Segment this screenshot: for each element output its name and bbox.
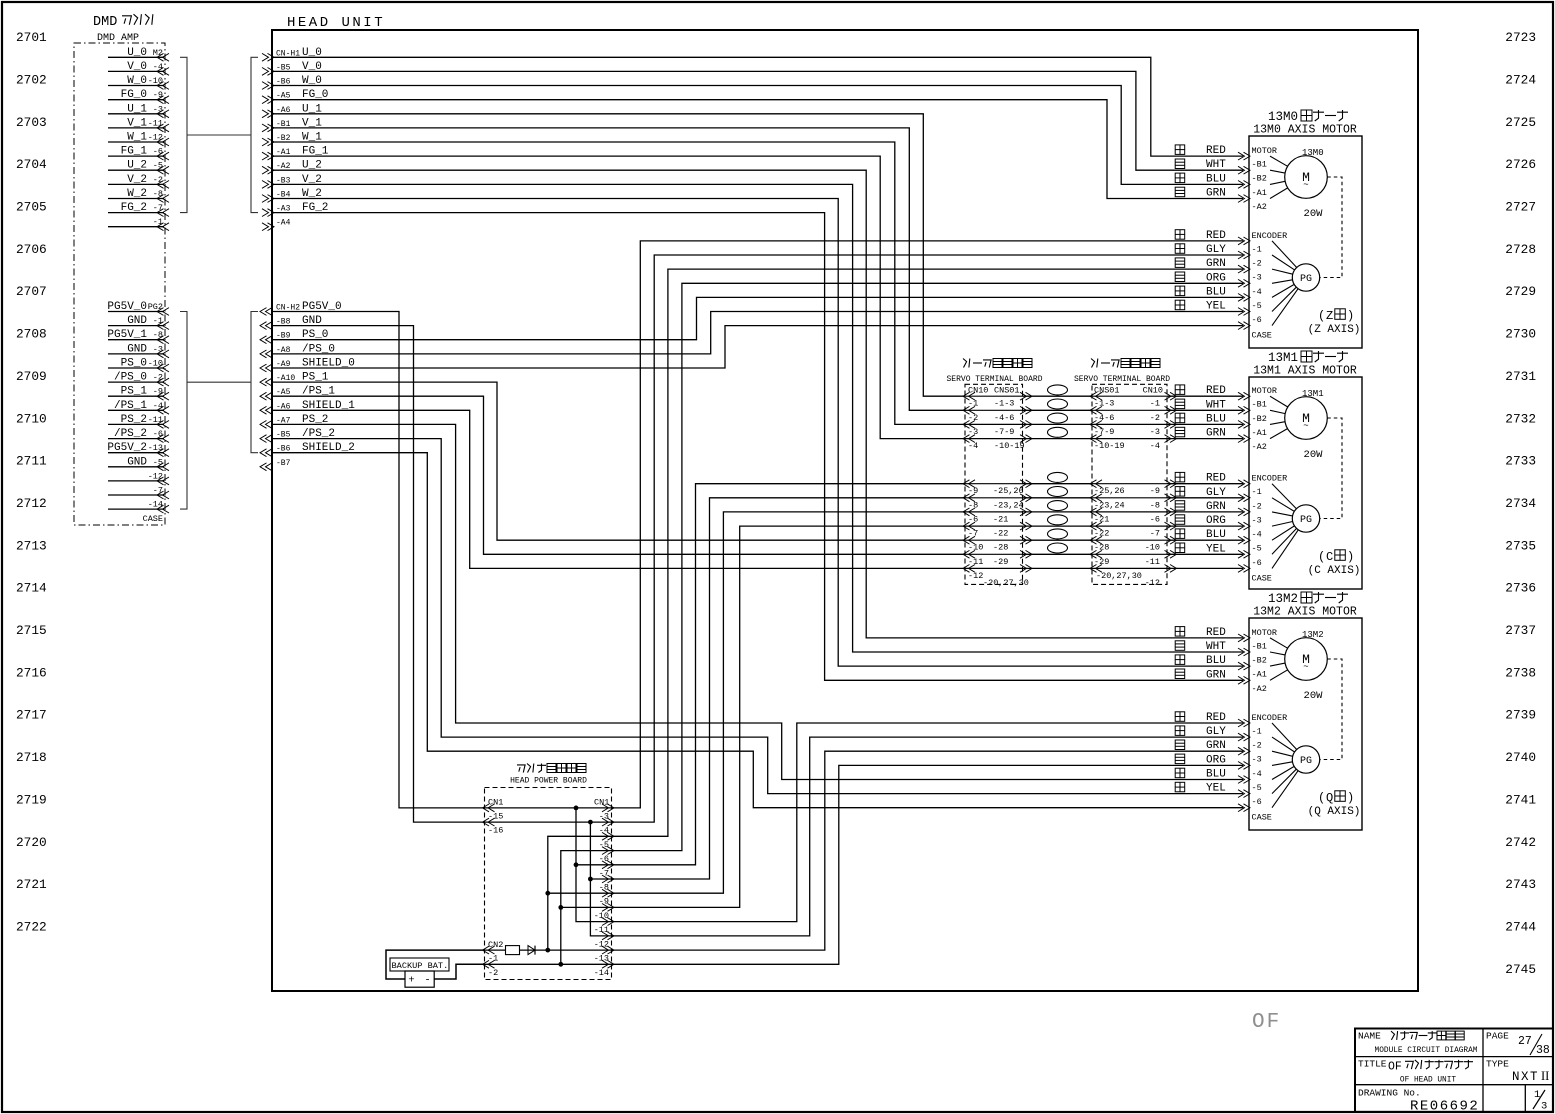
- svg-text:V_0: V_0: [127, 61, 147, 73]
- 13M0 encoder row 7 color label and pin arrow: [1244, 322, 1251, 330]
- svg-text:-1: -1: [1252, 487, 1262, 497]
- svg-text:-4: -4: [599, 826, 609, 836]
- svg-text:20W: 20W: [1304, 690, 1324, 702]
- svg-text:PAGE: PAGE: [1486, 1031, 1509, 1042]
- 13M1 motor pin fan lines: [1270, 396, 1288, 407]
- servo terminal board 2 CN10 pin -8 encoder row: [1092, 497, 1167, 499]
- svg-text:NAME: NAME: [1358, 1031, 1381, 1042]
- wire servo terminal board link motor row 4: [1023, 438, 1093, 440]
- DMD AMP pin -2 /PS_0 stub and connector: [108, 381, 164, 383]
- DMD AMP pin -3 U_1 stub and connector: [108, 113, 164, 115]
- 13M2 encoder row 6 color label and pin arrow: [1175, 782, 1185, 792]
- svg-text:2720: 2720: [16, 835, 47, 850]
- svg-text:YEL: YEL: [1206, 301, 1226, 313]
- DMD AMP pin -12 stub and connector: [108, 480, 164, 482]
- wire HEAD POWER BOARD CN1-12 to 13M2 encoder: [612, 737, 1243, 936]
- wire servo terminal board to 13M1 encoder row 2: [1167, 497, 1243, 499]
- servo terminal board 2 CNS01 pin -10-19 / CN10 pin -4 row: [1092, 438, 1167, 440]
- svg-text:2743: 2743: [1505, 877, 1536, 892]
- svg-text:-B2: -B2: [1252, 656, 1267, 666]
- svg-text:-3: -3: [1150, 427, 1160, 437]
- svg-text:U_2: U_2: [127, 160, 147, 172]
- svg-text:ENCODER: ENCODER: [1252, 474, 1288, 484]
- svg-text:): ): [1347, 791, 1354, 805]
- svg-text:-12: -12: [148, 471, 163, 481]
- DMD AMP pin -6 /PS_2 stub and connector: [108, 438, 164, 440]
- 13M0 motor pin fan lines: [1270, 156, 1288, 166]
- wire servo terminal board link motor row 3: [1023, 423, 1093, 425]
- wire W_2 CN-H1 to 13M2 motor: [272, 199, 1243, 667]
- svg-text:-10: -10: [148, 359, 163, 369]
- connector CN-H1 pin CN-H1 U_0: [268, 53, 275, 61]
- svg-text:-6: -6: [1252, 797, 1262, 807]
- twisted-pair cable symbol between servo terminal boards: [1048, 427, 1068, 437]
- wire HEAD POWER BOARD CN1-10 to servo terminal board: [612, 526, 965, 907]
- svg-text:-21: -21: [993, 514, 1008, 524]
- svg-text:2711: 2711: [16, 454, 47, 469]
- connector CN-H2 pin -A7 PS_2: [260, 421, 267, 429]
- svg-text:-B2: -B2: [1252, 414, 1267, 424]
- wire servo terminal board link encoder row 2: [1023, 497, 1093, 499]
- svg-text:TITLE: TITLE: [1358, 1059, 1387, 1070]
- svg-text:RE06692: RE06692: [1410, 1099, 1479, 1114]
- servo terminal board 2 CN10 pin -11 encoder row: [1092, 553, 1167, 555]
- svg-text:20W: 20W: [1304, 449, 1324, 461]
- wire HEAD POWER BOARD CN1-11 to 13M2 encoder: [612, 723, 1243, 922]
- diode on backup battery line: [528, 946, 535, 955]
- 13M0 encoder circle PG: [1292, 264, 1319, 291]
- svg-text:CASE: CASE: [143, 514, 163, 524]
- svg-text:GRN: GRN: [1206, 669, 1226, 681]
- svg-text:RED: RED: [1206, 385, 1226, 397]
- connector CN-H2 pin -B9 PS_0: [260, 336, 267, 344]
- 13M2 encoder row 4 color label and pin arrow: [1175, 754, 1185, 764]
- wire V_1 CN-H1 to servo terminal board CN10: [272, 128, 965, 410]
- wire HEAD POWER BOARD CN1-5 to 13M0 encoder: [612, 269, 1243, 836]
- svg-text:SERVO TERMINAL BOARD: SERVO TERMINAL BOARD: [1074, 375, 1170, 384]
- wire HEAD POWER BOARD CN1-14 to 13M2 encoder: [612, 765, 1243, 964]
- wire servo terminal board link encoder row 1: [1023, 483, 1093, 485]
- svg-text:2735: 2735: [1505, 538, 1536, 553]
- HPB internal through wire CN1-16 to CN1-4: [485, 821, 613, 823]
- HPB internal wire to CN1-9: [548, 892, 612, 894]
- DMD AMP pin -12 W_1 stub and connector: [108, 141, 164, 143]
- svg-text:-28: -28: [993, 543, 1008, 553]
- svg-text:-5: -5: [1252, 301, 1262, 311]
- svg-text:2715: 2715: [16, 623, 47, 638]
- wire servo terminal board to 13M1 encoder row 7: [1167, 567, 1243, 569]
- svg-text:-3: -3: [1252, 755, 1262, 765]
- cable bracket upper left (DMD side): [180, 57, 187, 212]
- svg-text:ORG: ORG: [1206, 754, 1226, 766]
- svg-text:GRN: GRN: [1206, 740, 1226, 752]
- svg-text:-2: -2: [1252, 741, 1262, 751]
- svg-text:RED: RED: [1206, 712, 1226, 724]
- svg-text:-2: -2: [1252, 501, 1262, 511]
- svg-text:13M1: 13M1: [1268, 351, 1298, 365]
- twisted-pair cable symbol between servo terminal boards: [1048, 385, 1068, 395]
- svg-text:+: +: [408, 975, 414, 987]
- 13M1 encoder row 6 color label and pin arrow: [1175, 543, 1185, 553]
- svg-text:PS_2: PS_2: [121, 414, 147, 426]
- connector CN-H2 pin -B7: [260, 463, 267, 471]
- svg-text:-11: -11: [594, 925, 609, 935]
- svg-text:BLU: BLU: [1206, 286, 1226, 298]
- svg-text:ORG: ORG: [1206, 515, 1226, 527]
- svg-text:-3: -3: [599, 811, 609, 821]
- svg-text:GND: GND: [127, 343, 147, 355]
- svg-text:-25,26: -25,26: [1094, 486, 1125, 496]
- svg-text:HEAD UNIT: HEAD UNIT: [287, 15, 385, 31]
- wire GND CN-H2 to HEAD POWER BOARD CN1: [272, 326, 484, 822]
- 13M2 motor circle M: [1285, 638, 1328, 681]
- svg-text:-10-19: -10-19: [994, 441, 1025, 451]
- svg-text:CN10: CN10: [1143, 386, 1163, 396]
- wire HEAD POWER BOARD CN1-8 to servo terminal board: [612, 498, 965, 879]
- wire servo terminal board link motor row 1: [1023, 395, 1093, 397]
- svg-text:2739: 2739: [1505, 708, 1536, 723]
- 13M0 encoder row 5 color label and pin arrow: [1175, 286, 1185, 296]
- svg-text:PG5V_1: PG5V_1: [107, 329, 147, 341]
- svg-text:13M2 AXIS MOTOR: 13M2 AXIS MOTOR: [1253, 606, 1357, 619]
- BACKUP BAT. label box: [390, 958, 449, 971]
- svg-text:-11: -11: [1145, 557, 1160, 567]
- svg-text:13M2: 13M2: [1302, 630, 1324, 640]
- servo terminal board 1 CN10 pin -9 encoder row: [965, 483, 1023, 485]
- svg-text:2725: 2725: [1505, 115, 1536, 130]
- svg-text:2707: 2707: [16, 284, 47, 299]
- connector CN-H2 pin -A8 /PS_0: [260, 350, 267, 358]
- svg-text:GLY: GLY: [1206, 487, 1226, 499]
- svg-text:13M0 AXIS MOTOR: 13M0 AXIS MOTOR: [1253, 124, 1357, 137]
- DMD AMP pin -13 PG5V_2 stub and connector: [108, 452, 164, 454]
- svg-text:-1: -1: [1252, 727, 1262, 737]
- 13M2 encoder row 1 color label and pin arrow: [1175, 712, 1185, 722]
- svg-text:-16: -16: [488, 826, 503, 836]
- 13M2 motor wire color labels: WHT wire and pin arrow: [1175, 641, 1185, 651]
- svg-text:-12: -12: [594, 939, 609, 949]
- wire PS_2 CN-H2 to 13M2 encoder -4: [272, 424, 1243, 779]
- svg-text:BLU: BLU: [1206, 413, 1226, 425]
- svg-text:-11: -11: [968, 557, 983, 567]
- svg-text:-: -: [424, 975, 430, 987]
- 13M1 motor circle M: [1285, 397, 1328, 440]
- 13M0 encoder row 3 color label and pin arrow: [1175, 258, 1185, 268]
- wire SHIELD_0 CN-H2 to 13M0 encoder -6: [272, 326, 1243, 368]
- svg-text:2729: 2729: [1505, 284, 1536, 299]
- HEAD UNIT enclosure box: [272, 30, 1418, 991]
- wire servo terminal board to 13M1 motor row 1: [1167, 395, 1243, 397]
- svg-text:CNS01: CNS01: [994, 386, 1020, 396]
- wire servo terminal board link encoder row 7: [1023, 567, 1093, 569]
- svg-text:U_0: U_0: [127, 47, 147, 59]
- servo terminal board 1 CN10 pin -10 encoder row: [965, 539, 1023, 541]
- resistor on backup battery line: [506, 946, 520, 955]
- servo terminal board 2 CN10 pin -6 encoder row: [1092, 511, 1167, 513]
- cable bracket lower right (CN-H2 side): [251, 312, 258, 453]
- 13M0 encoder row 6 color label and pin arrow: [1175, 300, 1185, 310]
- servo terminal board 2 CN10 pin -10 encoder row: [1092, 539, 1167, 541]
- svg-text:RED: RED: [1206, 145, 1226, 157]
- servo terminal board 2 CN10 pin -9 encoder row: [1092, 483, 1167, 485]
- 13M0 encoder row 4 color label and pin arrow: [1175, 272, 1185, 282]
- wire HEAD POWER BOARD CN1-9 to servo terminal board: [612, 512, 965, 893]
- servo terminal board 1 CN10 pin -12 encoder row: [965, 567, 1023, 569]
- 13M1 motor wire color labels: WHT wire and pin arrow: [1175, 399, 1185, 409]
- svg-text:FG_1: FG_1: [121, 146, 148, 158]
- svg-text:GRN: GRN: [1206, 428, 1226, 440]
- svg-text:GRN: GRN: [1206, 501, 1226, 513]
- wire SHIELD_2 CN-H2 to 13M2 encoder -6: [272, 453, 1243, 808]
- DMD AMP pin -8 W_2 stub and connector: [108, 198, 164, 200]
- DMD AMP pin -5 GND stub and connector: [108, 466, 164, 468]
- svg-text:PS_0: PS_0: [121, 358, 147, 370]
- svg-text:-A1: -A1: [1252, 670, 1267, 680]
- svg-text:(: (: [1318, 309, 1325, 323]
- 13M0 motor wire color labels: BLU wire and pin arrow: [1175, 173, 1185, 183]
- svg-text:2738: 2738: [1505, 665, 1536, 680]
- svg-text:2714: 2714: [16, 581, 47, 596]
- svg-text:BACKUP BAT.: BACKUP BAT.: [392, 961, 449, 971]
- junction CN1-9 line: [545, 891, 550, 896]
- 13M1 encoder row 1 color label and pin arrow: [1175, 472, 1185, 482]
- svg-text:-4: -4: [1252, 530, 1262, 540]
- wire PG5V_0 CN-H2 to HEAD POWER BOARD CN1: [272, 312, 484, 808]
- svg-text:-A2: -A2: [1252, 202, 1267, 212]
- 13M2 motor pin fan lines: [1270, 638, 1288, 648]
- wire backup battery + to CN2-1: [386, 950, 485, 979]
- svg-text:-B2: -B2: [1252, 174, 1267, 184]
- svg-text:NXT: NXT: [1512, 1070, 1539, 1084]
- svg-text:-4-6: -4-6: [994, 413, 1014, 423]
- svg-text:-23,24: -23,24: [993, 500, 1024, 510]
- connector CN-H1 pin -A1 FG_1: [268, 152, 275, 160]
- wire V_0 CN-H1 to 13M0 motor: [272, 71, 1243, 170]
- 13M1 shaft coupling dashed link: [1320, 418, 1342, 519]
- servo terminal board 2 CN10 pin -12 encoder row: [1092, 567, 1167, 569]
- DMD AMP dashed enclosure: [74, 43, 165, 525]
- title block frame: [1355, 1029, 1553, 1112]
- svg-text:-29: -29: [993, 557, 1008, 567]
- svg-text:2719: 2719: [16, 792, 47, 807]
- svg-text:2710: 2710: [16, 411, 47, 426]
- svg-text:OF: OF: [1388, 1061, 1402, 1074]
- svg-text:2742: 2742: [1505, 835, 1536, 850]
- svg-text:(: (: [1318, 791, 1325, 805]
- svg-text:-1: -1: [1252, 244, 1262, 254]
- svg-text:RED: RED: [1206, 230, 1226, 242]
- svg-text:2705: 2705: [16, 200, 47, 215]
- svg-text:2717: 2717: [16, 708, 47, 723]
- wire HEAD POWER BOARD CN1-3 to 13M0 encoder: [612, 241, 1243, 808]
- 13M1 encoder row 2 color label and pin arrow: [1175, 487, 1185, 497]
- servo terminal board 2 dashed box: [1092, 384, 1167, 584]
- svg-text:-4: -4: [1252, 287, 1262, 297]
- svg-text:-22: -22: [1094, 529, 1109, 539]
- svg-text:(: (: [1318, 550, 1325, 564]
- DMD AMP pin -4 /PS_1 stub and connector: [108, 409, 164, 411]
- HPB internal link CN1-4 down to CN1-12: [590, 822, 612, 936]
- wire PS_1 CN-H2 to servo terminal board -10: [272, 382, 965, 540]
- twisted-pair cable symbol between servo terminal boards: [1048, 399, 1068, 409]
- svg-text:2741: 2741: [1505, 792, 1536, 807]
- svg-text:BLU: BLU: [1206, 655, 1226, 667]
- svg-text:U_1: U_1: [127, 103, 147, 115]
- svg-text:2706: 2706: [16, 242, 47, 257]
- HPB internal wire to CN1-7: [576, 864, 612, 866]
- 13M0 motor wire color labels: WHT wire and pin arrow: [1175, 159, 1185, 169]
- connector CN-H2 pin -A10 PS_1: [260, 378, 267, 386]
- svg-text:2718: 2718: [16, 750, 47, 765]
- svg-text:GLY: GLY: [1206, 726, 1226, 738]
- svg-text:20W: 20W: [1304, 208, 1324, 220]
- 13M0 encoder row 1 color label and pin arrow: [1175, 230, 1185, 240]
- svg-text:W_1: W_1: [127, 132, 147, 144]
- svg-text:-15: -15: [488, 811, 503, 821]
- svg-text:2713: 2713: [16, 538, 47, 553]
- 13M1 motor outline box: [1249, 377, 1362, 589]
- DMD AMP pin -5 U_2 stub and connector: [108, 169, 164, 171]
- junction CN1-4 line: [588, 820, 593, 825]
- svg-text:13M1: 13M1: [1302, 389, 1324, 399]
- wire servo terminal board to 13M1 encoder row 3: [1167, 511, 1243, 513]
- svg-text:ENCODER: ENCODER: [1252, 713, 1288, 723]
- wire U_0 CN-H1 to 13M0 motor: [272, 57, 1243, 156]
- wire servo terminal board link encoder row 6: [1023, 553, 1093, 555]
- svg-text:-1-3: -1-3: [994, 399, 1014, 409]
- svg-text:FG_2: FG_2: [121, 202, 147, 214]
- wire servo terminal board to 13M1 encoder row 6: [1167, 553, 1243, 555]
- svg-text:PG: PG: [1300, 274, 1312, 285]
- servo terminal board 2 CN10 pin -7 encoder row: [1092, 525, 1167, 527]
- junction CN1-8 line: [588, 877, 593, 882]
- svg-text:2732: 2732: [1505, 411, 1536, 426]
- servo terminal board 2 CNS01 pin -4-6 / CN10 pin -2 row: [1092, 409, 1167, 411]
- connector CN-H1 pin -A4: [268, 223, 275, 231]
- wire FG_1 CN-H1 to servo terminal board CN10: [272, 156, 965, 439]
- wire U_1 CN-H1 to servo terminal board CN10: [272, 114, 965, 396]
- svg-text:2723: 2723: [1505, 30, 1536, 45]
- junction CN1-10 line: [558, 905, 563, 910]
- wire servo terminal board link encoder row 5: [1023, 539, 1093, 541]
- DMD AMP pin -7 FG_2 stub and connector: [108, 212, 164, 214]
- connector CN-H1 pin -B4 W_2: [268, 195, 275, 203]
- svg-text:(Z AXIS): (Z AXIS): [1308, 324, 1361, 336]
- wire U_2 CN-H1 to 13M2 motor: [272, 170, 1243, 638]
- svg-text:-20,27,30: -20,27,30: [1096, 571, 1142, 581]
- connector CN-H1 pin -B6 W_0: [268, 82, 275, 90]
- svg-text:-1: -1: [488, 954, 498, 964]
- svg-text:-14: -14: [594, 968, 609, 978]
- DMD AMP pin -7 stub and connector: [108, 494, 164, 496]
- svg-text:-10: -10: [968, 543, 983, 553]
- svg-text:CASE: CASE: [1252, 573, 1272, 583]
- svg-text:-14: -14: [148, 500, 163, 510]
- twisted-pair cable symbol between servo terminal boards: [1048, 515, 1068, 525]
- 13M0 encoder pin fan lines: [1272, 241, 1297, 268]
- svg-text:-11: -11: [148, 118, 163, 128]
- DMD AMP pin -10 W_0 stub and connector: [108, 85, 164, 87]
- svg-text:-6: -6: [599, 854, 609, 864]
- svg-text:-2: -2: [1150, 413, 1160, 423]
- wire HEAD POWER BOARD CN1-6 to 13M0 encoder: [612, 283, 1243, 850]
- svg-text:WHT: WHT: [1206, 399, 1226, 411]
- twisted-pair cable symbol between servo terminal boards: [1048, 472, 1068, 482]
- HPB internal through wire CN1-15 to CN1-3: [485, 807, 613, 809]
- 13M1 motor wire color labels: RED wire and pin arrow: [1175, 385, 1185, 395]
- 13M0 motor wire color labels: GRN wire and pin arrow: [1175, 187, 1185, 197]
- servo terminal board 1 dashed box: [965, 384, 1023, 584]
- 13M1 encoder row 3 color label and pin arrow: [1175, 501, 1185, 511]
- svg-text:MOTOR: MOTOR: [1252, 386, 1278, 396]
- svg-text:): ): [1347, 309, 1354, 323]
- svg-text:13M0: 13M0: [1268, 110, 1298, 124]
- svg-text:13M0: 13M0: [1302, 148, 1324, 158]
- svg-text:-10: -10: [148, 76, 163, 86]
- HPB internal link CN2-1 up to CN1-5: [548, 836, 612, 950]
- junction CN1-7 line: [574, 862, 579, 867]
- svg-text:2716: 2716: [16, 665, 47, 680]
- wire HEAD POWER BOARD CN1-4 to 13M0 encoder: [612, 255, 1243, 822]
- svg-text:/PS_2: /PS_2: [114, 428, 147, 440]
- svg-text:GRN: GRN: [1206, 258, 1226, 270]
- svg-text:CN10: CN10: [968, 386, 988, 396]
- svg-text:27: 27: [1518, 1035, 1532, 1048]
- svg-text:2726: 2726: [1505, 157, 1536, 172]
- svg-text:-12: -12: [968, 571, 983, 581]
- HPB internal link CN1-3 down to CN1-11: [576, 808, 612, 922]
- connector CN-H1 pin -B5 V_0: [268, 68, 275, 76]
- svg-text:MOTOR: MOTOR: [1252, 146, 1278, 156]
- 13M1 encoder pin fan lines: [1272, 484, 1296, 509]
- wire SHIELD_1 CN-H2 to servo terminal board -12: [272, 410, 965, 568]
- svg-text:CASE: CASE: [1252, 813, 1272, 823]
- svg-text:2712: 2712: [16, 496, 47, 511]
- 13M2 motor outline box: [1249, 618, 1362, 830]
- svg-text:2704: 2704: [16, 157, 47, 172]
- 13M2 motor wire color labels: GRN wire and pin arrow: [1175, 669, 1185, 679]
- svg-text:-22: -22: [993, 529, 1008, 539]
- svg-text:~: ~: [1303, 662, 1308, 672]
- twisted-pair cable symbol between servo terminal boards: [1048, 501, 1068, 511]
- 13M1 encoder row 4 color label and pin arrow: [1175, 515, 1185, 525]
- DMD AMP pin -1 stub and connector: [108, 226, 164, 228]
- svg-text:2731: 2731: [1505, 369, 1536, 384]
- svg-text:PG: PG: [1300, 756, 1312, 767]
- connector CN-H1 pin -B2 W_1: [268, 138, 275, 146]
- wire FG_0 CN-H1 to 13M0 motor: [272, 100, 1243, 199]
- wire servo terminal board to 13M1 motor row 4: [1167, 438, 1243, 440]
- svg-text:-7: -7: [1150, 529, 1160, 539]
- svg-text:PG2: PG2: [148, 302, 163, 312]
- svg-text:-7-9: -7-9: [1094, 427, 1114, 437]
- wire FG_2 CN-H1 to 13M2 motor: [272, 213, 1243, 681]
- 13M1 encoder row 5 color label and pin arrow: [1175, 529, 1185, 539]
- svg-text:-11: -11: [148, 415, 163, 425]
- svg-text:-4-6: -4-6: [1094, 413, 1114, 423]
- svg-text:-10-19: -10-19: [1094, 441, 1125, 451]
- wire W_0 CN-H1 to 13M0 motor: [272, 86, 1243, 185]
- svg-text:RED: RED: [1206, 627, 1226, 639]
- svg-text:/PS_1: /PS_1: [114, 400, 147, 412]
- svg-text:GND: GND: [127, 456, 147, 468]
- wire /PS_1 CN-H2 to servo terminal board -11: [272, 396, 965, 554]
- DMD AMP pin -8 PG5V_1 stub and connector: [108, 339, 164, 341]
- svg-text:-B1: -B1: [1252, 641, 1267, 651]
- svg-text:-B7: -B7: [276, 459, 291, 468]
- svg-text:13M2: 13M2: [1268, 592, 1298, 606]
- twisted-pair cable symbol between servo terminal boards: [1048, 529, 1068, 539]
